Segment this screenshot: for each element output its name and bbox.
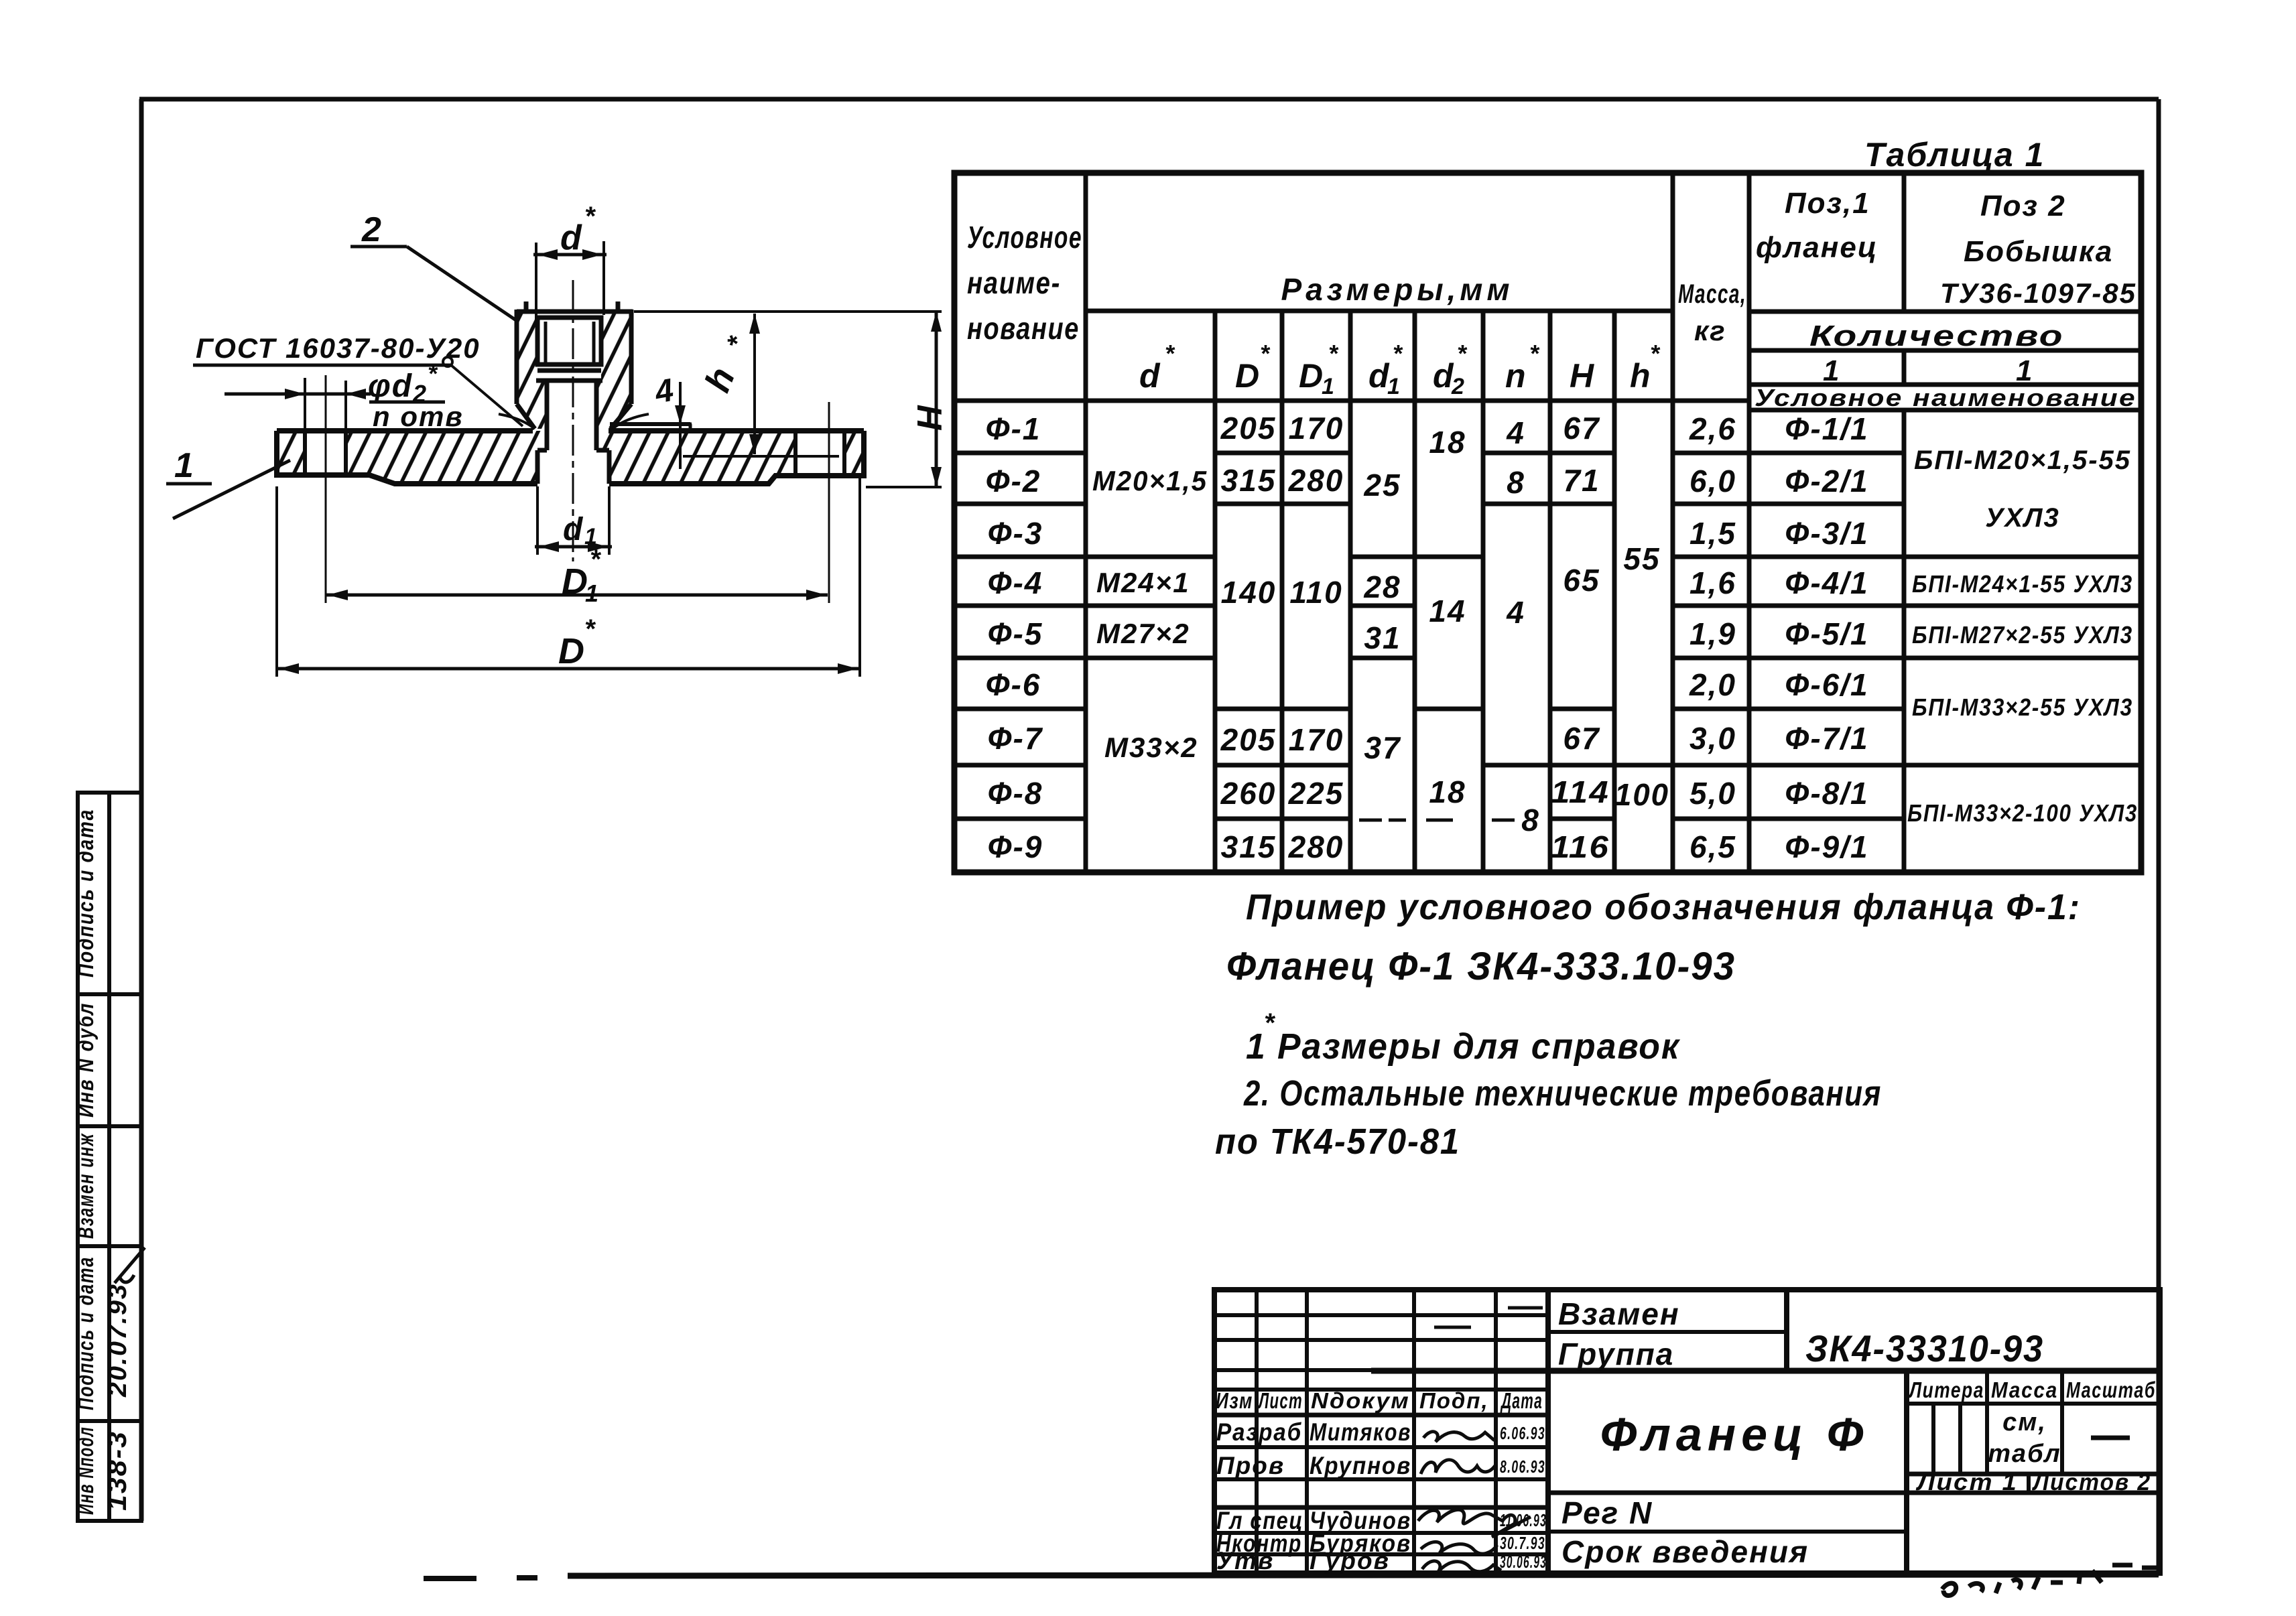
svg-text:4: 4	[1506, 595, 1525, 630]
svg-text:1: 1	[1322, 374, 1336, 399]
svg-text:Ф-1/1: Ф-1/1	[1785, 411, 1868, 446]
svg-text:Взамен инж: Взамен инж	[73, 1133, 98, 1239]
svg-text:Ф-6: Ф-6	[986, 667, 1041, 702]
svg-text:наиме-: наиме-	[967, 265, 1061, 300]
svg-text:см,: см,	[2002, 1408, 2047, 1436]
svg-text:140: 140	[1221, 575, 1277, 610]
svg-text:2: 2	[1451, 374, 1466, 399]
svg-text:37: 37	[1364, 730, 1401, 765]
svg-text:Лист: Лист	[1258, 1388, 1303, 1413]
svg-text:d: d	[563, 512, 584, 547]
svg-text:1: 1	[174, 446, 195, 485]
svg-text:Фланец Ф: Фланец Ф	[1600, 1408, 1869, 1461]
svg-text:Разраб: Разраб	[1216, 1418, 1302, 1446]
svg-text:Поз 2: Поз 2	[1980, 190, 2066, 222]
svg-text:*: *	[1529, 340, 1540, 367]
svg-text:ЗК4-33310-93: ЗК4-33310-93	[1805, 1327, 2044, 1369]
svg-text:2,6: 2,6	[1689, 411, 1736, 446]
svg-text:1,6: 1,6	[1689, 565, 1736, 600]
svg-text:Ф-3: Ф-3	[988, 516, 1043, 551]
svg-text:*: *	[1393, 340, 1403, 367]
svg-text:1,5: 1,5	[1689, 516, 1736, 551]
svg-text:Срок введения: Срок введения	[1561, 1534, 1809, 1569]
svg-text:Рег N: Рег N	[1561, 1495, 1653, 1530]
svg-text:71: 71	[1563, 463, 1600, 498]
svg-text:Крупнов: Крупнов	[1310, 1452, 1411, 1479]
svg-text:Ф-2/1: Ф-2/1	[1785, 464, 1868, 498]
svg-text:табл: табл	[1988, 1440, 2061, 1468]
svg-text:100: 100	[1614, 777, 1669, 812]
svg-text:30.06.93: 30.06.93	[1500, 1552, 1547, 1572]
svg-text:H: H	[1570, 357, 1595, 395]
svg-text:Подп,: Подп,	[1419, 1388, 1489, 1413]
svg-text:Условное: Условное	[967, 220, 1082, 255]
svg-text:Пример условного обозначения ф: Пример условного обозначения фланца Ф-1:	[1246, 887, 2081, 927]
svg-text:6,0: 6,0	[1689, 464, 1736, 498]
svg-text:БПI-М33×2-100 УХЛ3: БПI-М33×2-100 УХЛ3	[1907, 799, 2138, 827]
svg-text:Фланец Ф-1 ЗК4-333.10-93: Фланец Ф-1 ЗК4-333.10-93	[1226, 945, 1736, 988]
svg-text:25: 25	[1363, 468, 1401, 502]
svg-text:110: 110	[1289, 575, 1342, 610]
svg-text:Ф-9: Ф-9	[988, 829, 1043, 864]
svg-text:БПI-М20×1,5-55: БПI-М20×1,5-55	[1914, 446, 2131, 475]
svg-text:Группа: Группа	[1558, 1337, 1674, 1371]
svg-text:Ф-7: Ф-7	[988, 721, 1043, 756]
svg-text:1: 1	[1387, 374, 1401, 399]
svg-text:М27×2: М27×2	[1096, 618, 1190, 649]
svg-text:Таблица 1: Таблица 1	[1864, 136, 2045, 174]
svg-text:*: *	[1650, 340, 1661, 367]
svg-text:28: 28	[1363, 569, 1401, 604]
svg-text:Пров: Пров	[1216, 1452, 1285, 1479]
svg-text:Ф-3/1: Ф-3/1	[1785, 516, 1868, 551]
svg-text:138-3: 138-3	[103, 1430, 132, 1511]
svg-text:Инв Nподл: Инв Nподл	[73, 1426, 98, 1515]
svg-text:2. Остальные технические требо: 2. Остальные технические требования	[1243, 1073, 1882, 1114]
svg-text:1: 1	[2016, 354, 2033, 387]
svg-text:нование: нование	[967, 311, 1080, 346]
svg-text:2: 2	[361, 210, 383, 249]
svg-text:Инв N дубл: Инв N дубл	[73, 1002, 98, 1118]
svg-text:Условное наименование: Условное наименование	[1755, 384, 2136, 411]
svg-text:Ф-7/1: Ф-7/1	[1785, 721, 1868, 756]
svg-text:Ф-5/1: Ф-5/1	[1785, 616, 1868, 651]
svg-text:14: 14	[1429, 594, 1466, 628]
svg-text:Ф-5: Ф-5	[988, 616, 1043, 651]
svg-text:Бобышка: Бобышка	[1964, 235, 2113, 268]
svg-text:205: 205	[1220, 722, 1277, 757]
svg-text:Подпись и дата: Подпись и дата	[73, 1256, 98, 1410]
svg-text:*: *	[1260, 340, 1271, 367]
svg-text:6.06.93: 6.06.93	[1500, 1423, 1545, 1443]
svg-text:315: 315	[1221, 463, 1277, 498]
svg-text:Ф-9/1: Ф-9/1	[1785, 829, 1868, 864]
svg-text:280: 280	[1288, 463, 1344, 498]
svg-text:55: 55	[1623, 541, 1660, 576]
svg-text:205: 205	[1220, 411, 1277, 446]
svg-text:Листов 2: Листов 2	[2031, 1469, 2151, 1495]
svg-text:6,5: 6,5	[1689, 829, 1736, 864]
svg-text:Размеры,мм: Размеры,мм	[1281, 272, 1514, 307]
svg-text:1 Размеры для справок: 1 Размеры для справок	[1246, 1026, 1681, 1067]
svg-text:1,9: 1,9	[1689, 616, 1736, 651]
svg-text:Взамен: Взамен	[1558, 1296, 1680, 1331]
svg-text:280: 280	[1288, 829, 1344, 864]
svg-text:М33×2: М33×2	[1104, 732, 1198, 763]
svg-text:Гуров: Гуров	[1310, 1547, 1390, 1574]
svg-text:n: n	[1505, 357, 1527, 395]
svg-text:*: *	[590, 545, 602, 574]
svg-text:20.07.93: 20.07.93	[104, 1283, 132, 1398]
svg-text:ГОСТ 16037-80-У20: ГОСТ 16037-80-У20	[196, 332, 481, 364]
svg-text:Подпись и дата: Подпись и дата	[73, 809, 98, 978]
svg-text:Изм: Изм	[1216, 1388, 1253, 1413]
svg-text:Лист 1: Лист 1	[1915, 1469, 2018, 1495]
svg-text:3,0: 3,0	[1689, 721, 1736, 756]
svg-text:*: *	[428, 360, 438, 387]
svg-text:Масса,: Масса,	[1678, 279, 1746, 309]
svg-text:Масштаб: Масштаб	[2066, 1377, 2156, 1402]
svg-text:d: d	[1139, 357, 1161, 395]
svg-text:ТУ36-1097-85: ТУ36-1097-85	[1940, 277, 2136, 309]
svg-text:d: d	[560, 218, 583, 257]
svg-text:2,0: 2,0	[1689, 667, 1736, 702]
svg-text:D: D	[1235, 357, 1261, 395]
svg-text:8: 8	[1507, 465, 1525, 500]
svg-text:18: 18	[1429, 425, 1466, 460]
svg-text:БПI-М33×2-55 УХЛ3: БПI-М33×2-55 УХЛ3	[1912, 693, 2133, 721]
svg-text:*: *	[584, 614, 596, 644]
svg-text:*: *	[1457, 340, 1468, 367]
svg-text:D: D	[1299, 357, 1324, 395]
svg-text:φd: φd	[368, 368, 413, 404]
svg-text:n отв: n отв	[373, 401, 464, 432]
svg-text:315: 315	[1221, 829, 1277, 864]
svg-text:170: 170	[1289, 722, 1344, 757]
svg-text:Ф-2: Ф-2	[986, 464, 1041, 498]
svg-text:1: 1	[1823, 354, 1840, 387]
svg-text:4: 4	[1506, 415, 1525, 450]
svg-text:h: h	[1630, 357, 1652, 395]
svg-text:Ф-6/1: Ф-6/1	[1785, 667, 1868, 702]
svg-text:30.7.93: 30.7.93	[1500, 1533, 1545, 1553]
svg-text:Митяков: Митяков	[1310, 1418, 1411, 1446]
svg-text:Ф-8/1: Ф-8/1	[1785, 776, 1868, 811]
svg-text:67: 67	[1563, 721, 1600, 756]
svg-text:М24×1: М24×1	[1096, 567, 1190, 598]
svg-text:*: *	[1264, 1008, 1276, 1038]
svg-text:фланец: фланец	[1756, 231, 1878, 264]
svg-text:Утв: Утв	[1216, 1547, 1274, 1574]
svg-text:8: 8	[1521, 803, 1540, 837]
svg-text:Поз,1: Поз,1	[1785, 187, 1870, 220]
svg-text:114: 114	[1551, 775, 1610, 809]
svg-text:18: 18	[1429, 775, 1466, 809]
svg-text:УХЛ3: УХЛ3	[1985, 503, 2060, 533]
svg-text:М20×1,5: М20×1,5	[1092, 465, 1208, 496]
svg-text:1: 1	[585, 580, 600, 607]
svg-text:225: 225	[1288, 776, 1344, 811]
svg-text:Ф-1: Ф-1	[986, 411, 1041, 446]
svg-text:Ф-4: Ф-4	[988, 565, 1043, 600]
svg-text:5,0: 5,0	[1689, 776, 1736, 811]
svg-text:67: 67	[1563, 411, 1600, 446]
svg-text:170: 170	[1289, 411, 1344, 446]
svg-text:*: *	[584, 202, 596, 231]
svg-text:БПI-М24×1-55 УХЛ3: БПI-М24×1-55 УХЛ3	[1912, 570, 2133, 598]
svg-text:*: *	[1165, 340, 1175, 367]
svg-text:H: H	[911, 404, 950, 431]
svg-text:Литера: Литера	[1908, 1377, 1984, 1402]
svg-text:Масса: Масса	[1991, 1377, 2058, 1402]
svg-text:260: 260	[1220, 776, 1277, 811]
svg-text:Ф-4/1: Ф-4/1	[1785, 565, 1868, 600]
svg-text:*: *	[1328, 340, 1339, 367]
svg-text:31: 31	[1364, 620, 1401, 655]
svg-text:116: 116	[1551, 829, 1610, 864]
svg-text:65: 65	[1563, 563, 1600, 598]
svg-text:кг: кг	[1694, 315, 1726, 346]
svg-text:Дата: Дата	[1500, 1388, 1543, 1413]
svg-text:по ТК4-570-81: по ТК4-570-81	[1215, 1122, 1460, 1162]
svg-text:Ф-8: Ф-8	[988, 776, 1043, 811]
svg-text:Nдокум: Nдокум	[1311, 1388, 1410, 1413]
svg-text:Количество: Количество	[1809, 320, 2064, 352]
svg-text:БПI-М27×2-55 УХЛ3: БПI-М27×2-55 УХЛ3	[1912, 621, 2133, 649]
svg-text:D: D	[558, 631, 586, 671]
svg-text:8.06.93: 8.06.93	[1500, 1457, 1545, 1477]
